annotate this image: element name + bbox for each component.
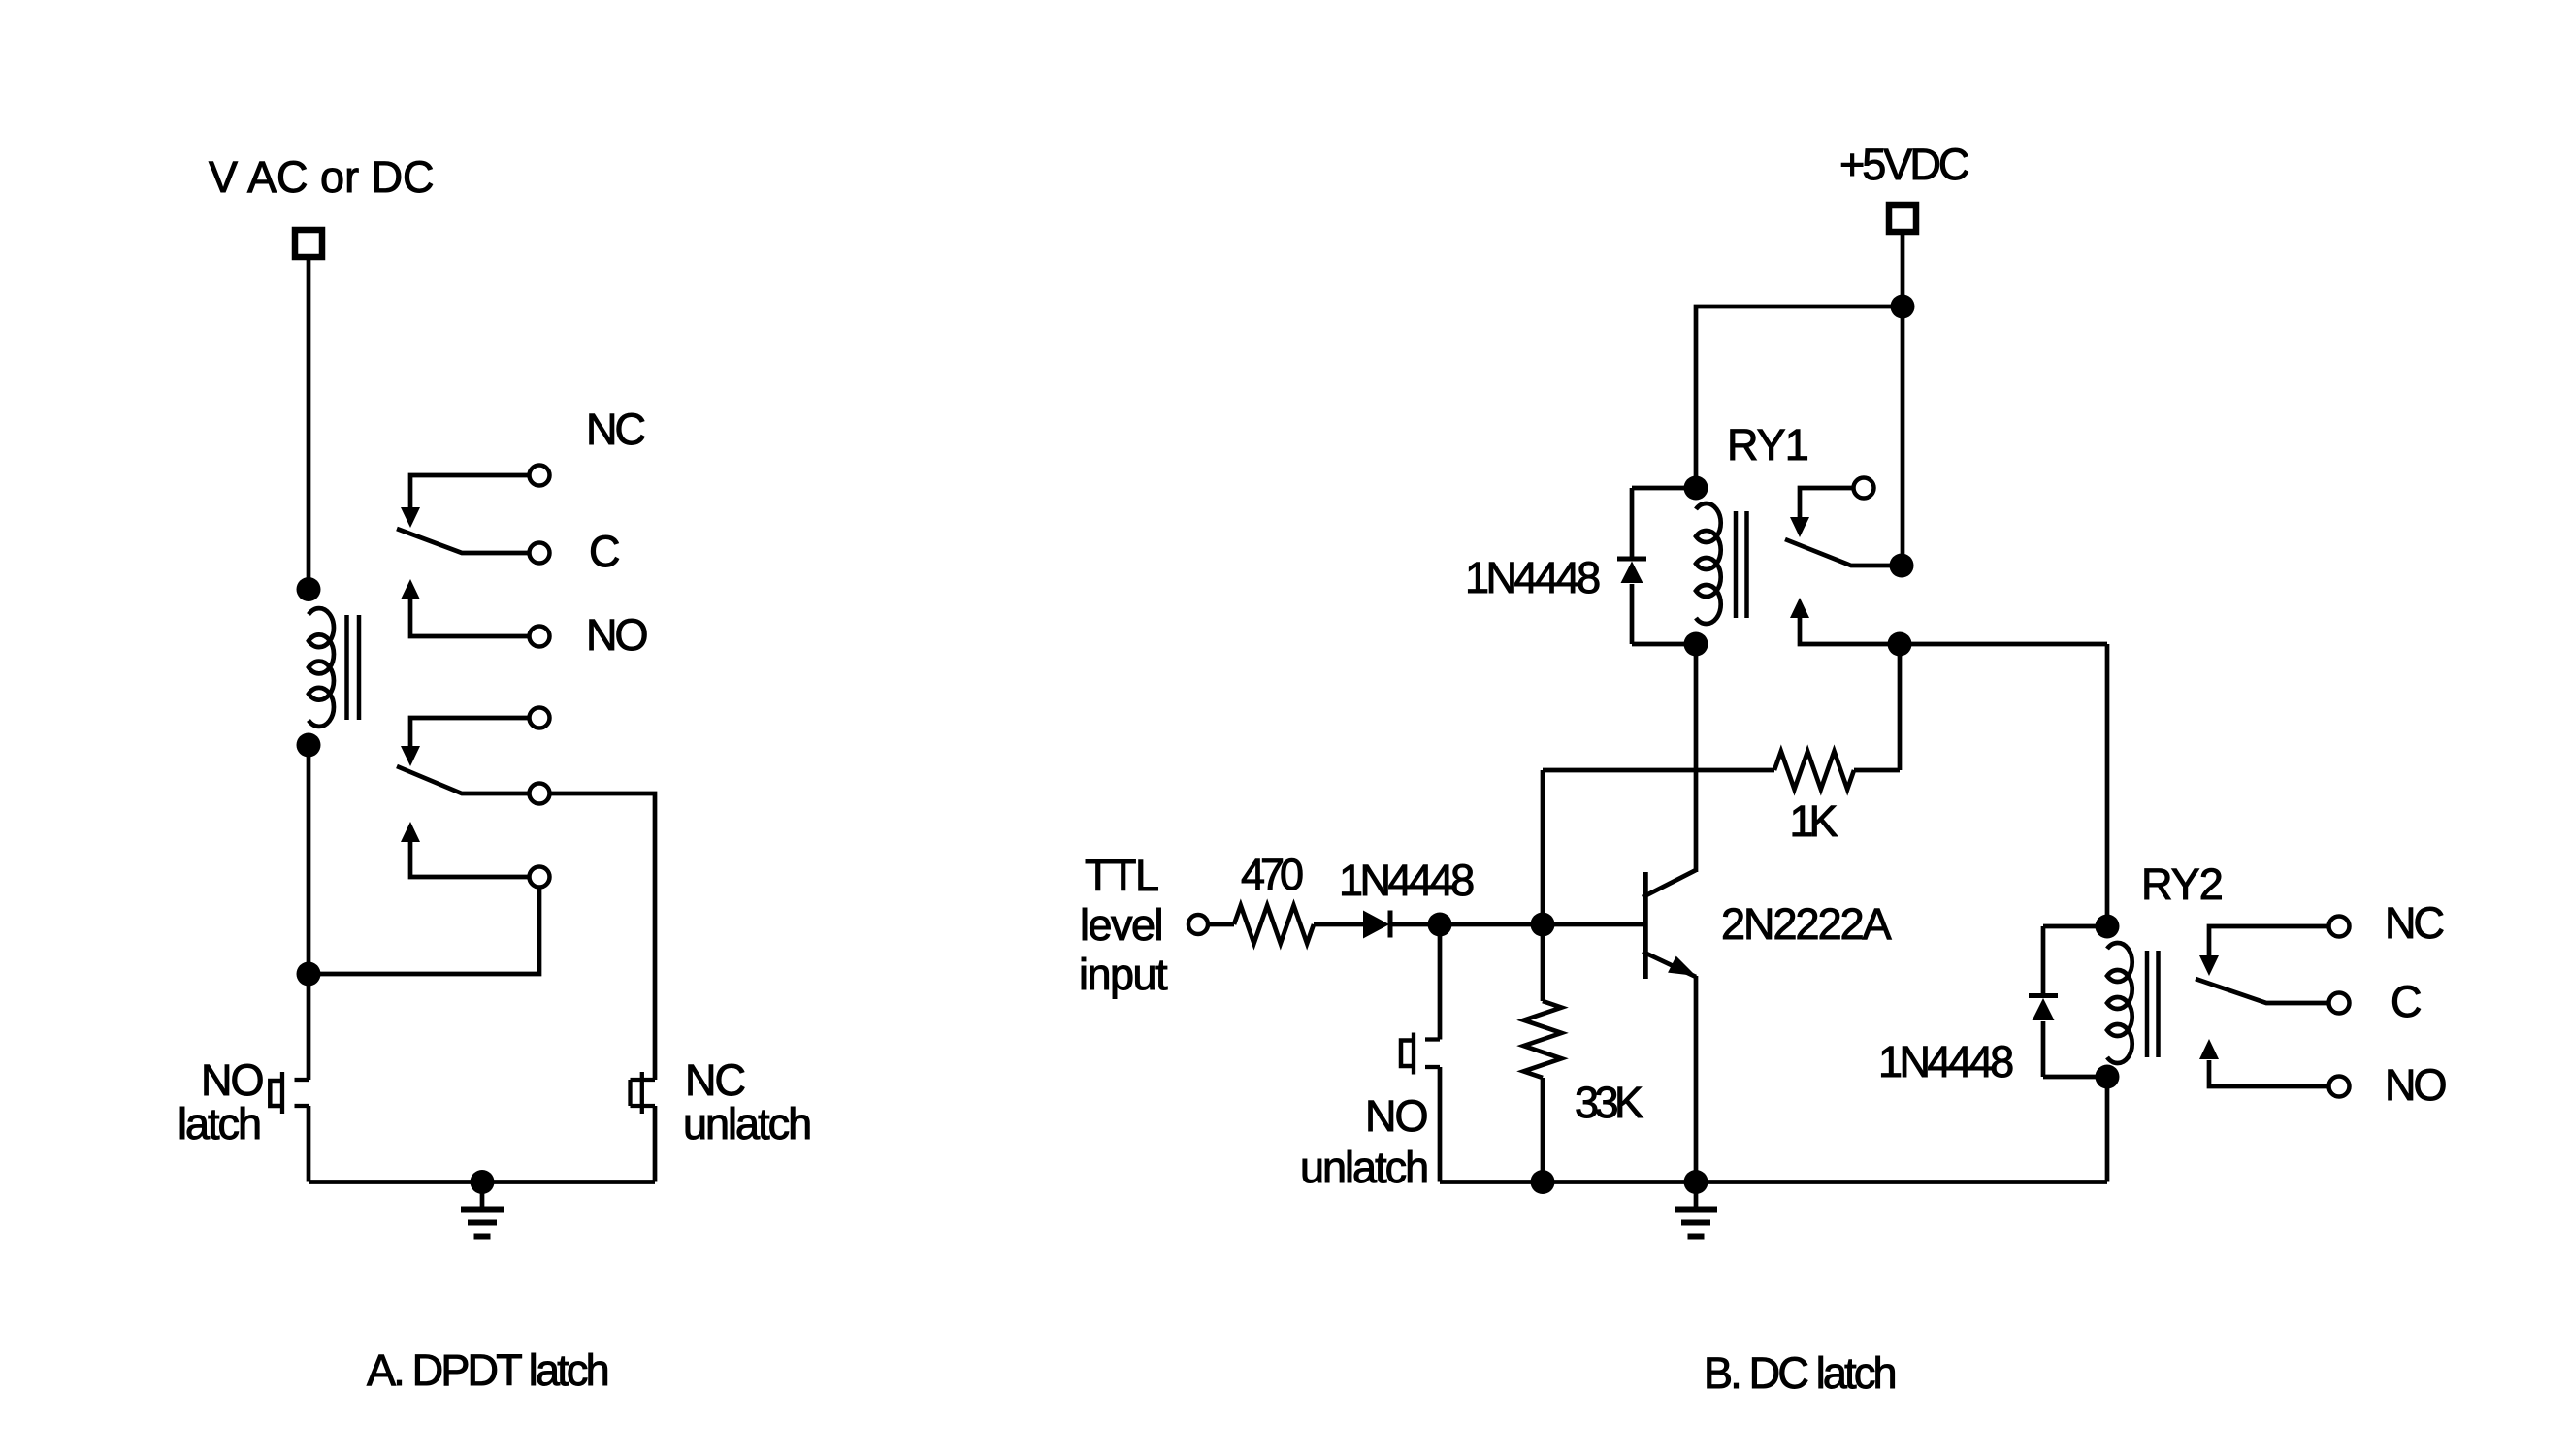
svg-text:NO: NO [201, 1055, 263, 1105]
wire RY2 feed down [2105, 644, 2110, 926]
terminal NC contact 1 [530, 466, 550, 486]
arrow up RY2 [2199, 1039, 2219, 1059]
wire NC unlatch to ground bus [653, 1106, 658, 1182]
junction input node [1428, 913, 1452, 937]
diode D1 1N4448 across RY1 [1632, 486, 1696, 491]
svg-text:latch: latch [178, 1099, 260, 1149]
svg-text:2N2222A: 2N2222A [1721, 899, 1892, 949]
terminal NC contact 2 [530, 708, 550, 728]
svg-text:1K: 1K [1789, 796, 1838, 846]
wire ground bus B [1440, 1180, 2107, 1184]
svg-text:NO: NO [586, 610, 646, 660]
wire input to 470 [1208, 922, 1234, 927]
terminal C contact 1 [530, 543, 550, 564]
svg-text:A. DPDT latch: A. DPDT latch [367, 1345, 608, 1395]
pushbutton NC unlatch [631, 1078, 656, 1082]
svg-text:C: C [589, 527, 619, 576]
wire ground bus A [309, 1180, 655, 1184]
terminal C contact 2 [530, 784, 550, 804]
terminal TTL input [1188, 915, 1208, 934]
svg-text:level: level [1080, 900, 1162, 950]
arrow down contact 2 [401, 746, 420, 766]
arrow up RY1 contact [1790, 598, 1809, 618]
svg-text:C: C [2391, 977, 2421, 1026]
wire NO latch to ground bus [307, 1106, 311, 1182]
resistor R1 470 [1234, 906, 1314, 944]
wire NC2 to arrow [410, 718, 530, 746]
relay contact RY2 NC wire [2209, 926, 2329, 955]
junction RY1 NO node [1888, 632, 1912, 657]
arrow up contact 1 [401, 579, 420, 599]
wire +5V rail to RY1 coil [1696, 307, 1903, 488]
pushbutton NO unlatch B [1438, 924, 1443, 1040]
arrow up contact 2 [401, 822, 420, 842]
junction coil A bottom [297, 733, 321, 758]
svg-text:unlatch: unlatch [1300, 1143, 1427, 1192]
svg-text:1N4448: 1N4448 [1339, 856, 1474, 905]
relay coil RY1 [1696, 503, 1721, 624]
terminal V AC or DC [295, 230, 322, 257]
wire +5V rail to contact [1901, 307, 1905, 566]
relay coil RY2 [2107, 943, 2132, 1063]
wire input node to base node [1440, 922, 1543, 927]
wire 470 to diode [1314, 922, 1365, 927]
junction ground A [471, 1170, 495, 1194]
resistor R2 1K [1898, 644, 1903, 770]
wire NO2 to arrow [410, 842, 530, 877]
junction base node [1531, 913, 1555, 937]
svg-text:RY2: RY2 [2141, 859, 2223, 909]
wire RY1 NO to RY2 feed [1800, 618, 2107, 644]
junction node A lower [297, 962, 321, 987]
svg-text:1N4448: 1N4448 [1465, 553, 1600, 602]
wire NC1 to arrow [410, 475, 530, 507]
svg-text:33K: 33K [1575, 1078, 1643, 1127]
pushbutton NO latch [295, 1078, 309, 1082]
relay core RY2 [2145, 951, 2150, 1057]
svg-text:NC: NC [586, 404, 644, 454]
wire to NO latch switch [307, 974, 311, 1080]
relay coil A (DPDT relay) [309, 608, 334, 727]
svg-text:NC: NC [2385, 898, 2443, 948]
ground A [480, 1182, 485, 1210]
relay core A [344, 615, 349, 720]
junction RY2 coil top [2096, 915, 2120, 939]
wire V-source to coil [307, 257, 311, 590]
resistor R3 33K [1541, 924, 1545, 1001]
wire emitter to ground bus [1694, 976, 1699, 1182]
armature contact 1 [397, 529, 530, 553]
svg-text:NC: NC [685, 1055, 744, 1105]
junction coil A top [297, 577, 321, 601]
junction RY1 coil bottom [1684, 632, 1708, 657]
terminal NO contact 2 [530, 867, 550, 888]
svg-text:NO: NO [2385, 1060, 2445, 1110]
svg-text:NO: NO [1365, 1091, 1427, 1141]
terminal NO contact 1 [530, 627, 550, 647]
armature RY2 [2196, 979, 2329, 1003]
wire RY2 coil to ground bus [2105, 1077, 2110, 1182]
diode D3 1N4448 across RY2 [2043, 924, 2107, 929]
svg-text:V AC or DC: V AC or DC [209, 152, 435, 202]
junction RY2 coil bottom [2096, 1065, 2120, 1089]
wire base node to transistor [1543, 922, 1643, 927]
wire RY1 coil to collector [1694, 644, 1699, 872]
wire +5V down [1901, 232, 1905, 307]
junction RY1 contact to +5V [1890, 554, 1914, 578]
svg-text:unlatch: unlatch [683, 1099, 810, 1149]
svg-text:RY1: RY1 [1727, 420, 1808, 469]
terminal NC RY2 [2329, 917, 2350, 937]
wire NO1 to arrow [410, 599, 530, 636]
terminal C RY2 [2329, 993, 2350, 1014]
svg-text:input: input [1079, 950, 1168, 999]
terminal NO RY2 [2329, 1077, 2350, 1097]
wire C2 to NC unlatch [550, 793, 656, 1080]
svg-text:TTL: TTL [1085, 851, 1158, 900]
relay contact RY1 [1854, 478, 1874, 499]
armature contact 2 [397, 766, 530, 793]
diode D2 1N4448 series input [1363, 911, 1389, 939]
terminal +5VDC [1889, 205, 1916, 232]
junction 33K ground [1531, 1170, 1555, 1194]
junction RY1 coil top [1684, 476, 1708, 501]
relay core RY1 [1734, 511, 1739, 618]
arrow down RY2 [2199, 955, 2219, 976]
wire NO2 to coil bottom junction [309, 888, 539, 975]
svg-text:+5VDC: +5VDC [1839, 140, 1968, 189]
junction +5V rail [1891, 295, 1915, 319]
ground B [1694, 1182, 1699, 1210]
wire RY2 NO [2209, 1060, 2329, 1086]
wire 1K to base node [1541, 770, 1545, 924]
svg-text:B. DC latch: B. DC latch [1704, 1348, 1896, 1398]
svg-text:1N4448: 1N4448 [1878, 1037, 2013, 1086]
arrow down contact 1 [401, 507, 420, 528]
wire coil A bottom down [307, 745, 311, 974]
svg-text:470: 470 [1241, 850, 1303, 899]
junction emitter ground [1684, 1170, 1708, 1194]
transistor Q1 2N2222A [1643, 872, 1648, 979]
